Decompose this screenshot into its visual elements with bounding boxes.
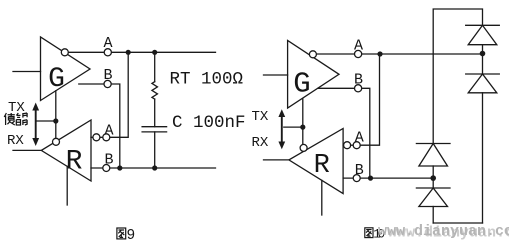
svg-text:A: A — [354, 38, 363, 55]
terminal circle: line B receiver side — [103, 165, 110, 172]
svg-text:R: R — [66, 147, 83, 178]
bottom rail — [433, 222, 482, 224]
terminal circle: R1 enable bubble — [53, 138, 60, 145]
top rail — [433, 9, 482, 144]
wire: receiver2 A input — [343, 54, 379, 145]
junction dot: A diode node — [480, 51, 486, 57]
terminal circle: line A receiver side 2 — [353, 142, 360, 149]
junction dot: enable 2 — [300, 125, 305, 130]
wire: receiver B input / line B — [91, 167, 216, 169]
diode D3 (middle, above B node) — [416, 144, 450, 179]
terminal circle: line A driver side 2 — [355, 50, 362, 57]
TX/RX direction arrow 2 — [278, 109, 285, 149]
svg-text:RX: RX — [7, 133, 24, 149]
svg-text:www.dianyuan.com: www.dianyuan.com — [378, 223, 509, 240]
junction dot: A receiver tap 2 — [377, 51, 382, 56]
junction dot: A-RT tap — [152, 50, 157, 55]
svg-text:RX: RX — [252, 135, 269, 151]
junction dot: B driver tap 2 — [368, 176, 373, 181]
svg-text:B: B — [354, 72, 363, 89]
receiver R2 (triangle) — [289, 129, 343, 194]
svg-text:TX: TX — [252, 109, 269, 125]
receiver R2 output wire — [264, 159, 289, 161]
wire: G2 output B — [318, 88, 370, 178]
svg-text:G: G — [293, 68, 310, 101]
caption 图9 — [117, 228, 135, 244]
svg-text:B: B — [105, 152, 114, 169]
caption 图10 — [365, 228, 385, 242]
driver G1 input wire — [13, 71, 41, 73]
terminal circle: G1 out bubble — [61, 49, 68, 56]
svg-text:RT 100Ω: RT 100Ω — [170, 70, 244, 90]
wire: G1 output B — [79, 84, 120, 168]
driver G1 (triangle) — [41, 37, 91, 101]
svg-text:R: R — [314, 151, 330, 181]
svg-text:G: G — [48, 64, 65, 95]
capacitor C plates — [142, 126, 167, 128]
diode D2 (right, below A node) — [466, 54, 500, 224]
resistor RT zigzag — [152, 82, 158, 99]
label 使能 (hand-drawn glyphs) — [4, 113, 27, 125]
TX/RX direction arrow — [32, 103, 39, 147]
svg-text:9: 9 — [127, 228, 136, 244]
receiver R1 output wire — [13, 149, 41, 151]
wire: enable tick 2 — [284, 126, 303, 128]
driver G2 input wire — [264, 74, 288, 76]
capacitor C bottom lead — [154, 132, 156, 168]
junction dot: enable — [53, 118, 58, 123]
driver G2 (triangle) — [288, 40, 339, 108]
terminal circle: line B driver side — [104, 80, 111, 87]
watermark www.dianyuan.com — [378, 223, 509, 242]
junction dot: B-driver tap — [117, 165, 122, 170]
terminal circle: line B receiver side 2 — [353, 175, 360, 182]
diode D1 (top right) — [466, 25, 500, 53]
resistor RT leads — [154, 52, 156, 81]
diode D4 (middle bottom) — [416, 178, 450, 223]
svg-text:A: A — [105, 123, 114, 140]
wire: G1 output A to line A — [66, 51, 216, 53]
terminal circle: R1 input bubble — [93, 134, 100, 141]
svg-text:B: B — [355, 162, 364, 179]
svg-text:C 100nF: C 100nF — [172, 113, 246, 133]
terminal circle: line A receiver side — [103, 134, 110, 141]
wire: enable tick from arrow — [37, 120, 56, 122]
svg-text:A: A — [104, 35, 113, 52]
wire: receiver A input — [91, 52, 128, 137]
terminal circle: line A driver side — [104, 49, 111, 56]
svg-text:A: A — [355, 130, 364, 147]
wire: G2 output A / line A — [314, 53, 482, 55]
wire: enable line from G1 to R1 — [55, 91, 57, 140]
terminal circle: R2 input bubble — [344, 142, 351, 149]
junction dot: B diode node — [430, 175, 436, 181]
wire: enable line G2-R2 — [302, 99, 304, 146]
terminal circle: R2 enable bubble — [300, 144, 307, 151]
terminal circle: line B driver side 2 — [355, 85, 362, 92]
junction dot: A-receiver tap — [126, 50, 131, 55]
receiver R1 bottom stub — [66, 166, 68, 205]
receiver R1 (triangle) — [41, 120, 91, 181]
junction dot: B-capacitor tap — [152, 165, 157, 170]
terminal circle: G2 out bubble — [309, 51, 316, 58]
wire: receiver2 B input / line B — [343, 177, 433, 179]
receiver R2 bottom stub — [321, 180, 323, 215]
svg-text:B: B — [104, 67, 113, 84]
